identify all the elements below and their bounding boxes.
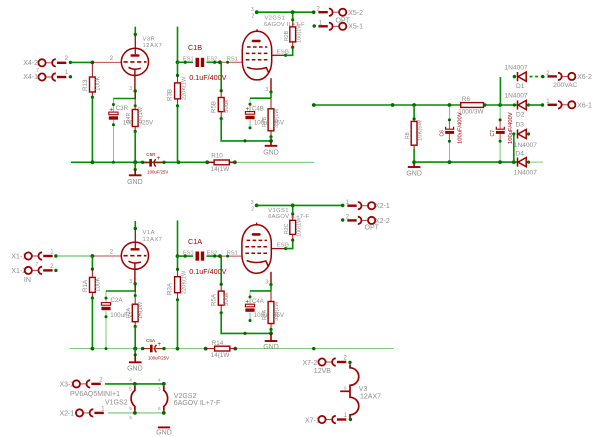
node wire end X5-2	[312, 10, 316, 14]
wire stub node at X4-2	[69, 61, 72, 64]
svg-text:C4B: C4B	[252, 105, 264, 112]
svg-text:6AGOV IL+7-F: 6AGOV IL+7-F	[268, 214, 309, 220]
wire cathode row V2GS1	[250, 97, 271, 99]
node R7B bottom	[269, 135, 272, 138]
connector X1 pin 2	[25, 267, 53, 274]
pin lead C7 top	[499, 120, 501, 129]
node R3B top	[176, 74, 179, 77]
svg-text:100(1W: 100(1W	[296, 217, 302, 237]
wire C4A top	[249, 291, 251, 304]
resistor R3B	[175, 83, 181, 99]
wire PSU bottom rail	[414, 161, 517, 163]
node cathode V1A	[134, 282, 137, 285]
node cap C5R right	[162, 161, 165, 164]
pin lead R13 top	[91, 62, 93, 77]
wire R5B to cathode rail	[221, 119, 271, 141]
junction D4 rail	[512, 160, 516, 164]
pin lead C5A right	[156, 348, 163, 350]
node cathode V3R	[134, 89, 137, 92]
svg-text:2: 2	[344, 356, 348, 362]
svg-text:100uF/25V: 100uF/25V	[148, 356, 169, 361]
junction C6 bottom	[448, 160, 452, 164]
pentode V1GS1 envelope	[242, 225, 271, 274]
connector X7 pin 2	[318, 358, 346, 365]
node C1B right pin	[213, 61, 216, 64]
wire cathode elbow V1A	[106, 284, 135, 291]
node GND stub bottom	[134, 353, 137, 356]
svg-text:200VAC: 200VAC	[553, 82, 577, 89]
connector X5 pin 1	[318, 23, 346, 30]
junction heater V2GS2 bottom	[162, 411, 166, 415]
svg-text:D3: D3	[516, 122, 525, 129]
junction cathode rail GND bottom	[269, 332, 273, 336]
svg-text:ESG: ESG	[277, 243, 290, 249]
svg-text:8: 8	[158, 406, 161, 411]
pin lead R1A bottom	[91, 292, 93, 298]
wire ground rail thin segment	[235, 161, 314, 163]
wire stub node at X4-1	[69, 75, 72, 78]
svg-text:C4A: C4A	[252, 298, 265, 305]
pin lead R14 right	[230, 348, 236, 350]
pin lead R3A top	[177, 269, 179, 276]
ground GND pentode bottom	[265, 333, 278, 341]
svg-text:1K(1W: 1K(1W	[138, 301, 144, 319]
wire C6 top lead	[448, 105, 450, 120]
node cap C5A right	[162, 347, 165, 350]
resistor R13	[90, 77, 96, 92]
svg-text:C2A: C2A	[111, 297, 124, 304]
pin lead R2C bottom	[292, 234, 294, 240]
svg-text:100uF/25V: 100uF/25V	[147, 170, 168, 175]
node cap C5R left	[141, 161, 144, 164]
pin lead R5B bottom	[220, 112, 222, 119]
svg-text:1: 1	[50, 250, 54, 256]
junction B+ rail stub	[391, 103, 395, 107]
svg-text:R5A: R5A	[211, 293, 218, 306]
wire to C2A top	[105, 291, 107, 303]
svg-text:1: 1	[101, 406, 105, 412]
triode V3R envelope	[121, 48, 148, 75]
svg-text:3: 3	[158, 387, 161, 392]
svg-text:X5-2: X5-2	[348, 10, 363, 17]
svg-text:C5A: C5A	[146, 338, 156, 343]
pin lead R7B top	[270, 98, 272, 109]
svg-text:R7B: R7B	[262, 116, 268, 127]
junction rail GND	[133, 160, 137, 164]
pentode V2GS1 grid2	[246, 52, 269, 54]
node R2A bottom	[134, 325, 137, 328]
node C4A bottom	[249, 319, 252, 322]
node R1A bottom	[91, 296, 94, 299]
connector X2 heater pin 1	[76, 409, 104, 416]
svg-text:100K: 100K	[95, 276, 102, 292]
wire heater bottom rail	[108, 412, 164, 414]
svg-text:GND: GND	[263, 344, 279, 351]
svg-text:5: 5	[129, 415, 132, 420]
svg-text:V3: V3	[359, 386, 368, 393]
pin lead cathode V1GS1	[270, 272, 272, 285]
svg-text:100K: 100K	[95, 75, 102, 91]
wire ground rail bottom right	[230, 348, 394, 350]
wire plate stub V1A	[134, 221, 136, 229]
svg-text:D4: D4	[516, 150, 525, 157]
pentode V2GS1 grid3	[246, 59, 269, 61]
svg-text:V1GS2: V1GS2	[105, 399, 128, 406]
capacitor C2A	[101, 303, 110, 311]
svg-text:OPT: OPT	[365, 225, 380, 232]
svg-text:9: 9	[129, 406, 132, 411]
junction R3B row	[176, 60, 180, 64]
diode D3	[518, 129, 527, 138]
svg-text:ES1: ES1	[183, 57, 194, 63]
svg-text:V2GS1: V2GS1	[265, 15, 286, 21]
connector X4 pin 1	[38, 73, 66, 80]
svg-text:GND: GND	[406, 170, 422, 177]
node cap C5A left	[141, 347, 144, 350]
svg-text:12AX7: 12AX7	[143, 237, 163, 243]
wire ground rail bottom left	[70, 348, 215, 350]
svg-text:330(1W: 330(1W	[274, 301, 280, 321]
pin lead plate V1A	[134, 229, 136, 249]
pin lead grid of V3R	[92, 61, 121, 63]
node D3 anode	[527, 132, 530, 135]
svg-text:X4-1: X4-1	[23, 74, 38, 81]
svg-text:12VB: 12VB	[314, 368, 331, 375]
node C6 top pin	[448, 118, 451, 121]
pin lead grid pentode V2GS1	[220, 61, 242, 63]
pin lead R7B bottom	[270, 131, 272, 137]
svg-text:GND: GND	[263, 149, 279, 156]
wire plate stub of V3R	[134, 27, 136, 35]
svg-text:3: 3	[129, 86, 132, 92]
node grid pin V1GS1	[226, 255, 229, 258]
wire C7 bottom lead	[499, 141, 501, 162]
connector X2 pin 1	[347, 202, 375, 209]
svg-text:R10: R10	[211, 153, 223, 160]
svg-text:X2-1: X2-1	[375, 203, 390, 210]
node R3A top	[176, 268, 179, 271]
node C1A left pin	[184, 255, 187, 258]
svg-text:500k: 500k	[223, 292, 230, 306]
pin lead C6 top	[448, 120, 450, 129]
wire bleeder top	[413, 105, 415, 119]
node B+ rail left end	[312, 103, 316, 107]
node bleeder top	[413, 117, 416, 120]
junction plate node V2GS1	[255, 10, 259, 14]
heater V3 upper arc	[350, 364, 359, 391]
node R2B top	[291, 18, 294, 21]
svg-text:GND: GND	[127, 179, 143, 186]
svg-text:1N4007: 1N4007	[514, 170, 537, 177]
pin lead R3B bottom	[177, 99, 179, 106]
svg-text:R2A: R2A	[126, 307, 132, 318]
node C4A top	[249, 295, 252, 298]
connector X4 pin 2	[38, 59, 66, 66]
pin lead grid V1A	[92, 255, 121, 257]
node R5A bottom	[220, 311, 223, 314]
node R1A top	[91, 268, 94, 271]
svg-text:+: +	[157, 155, 161, 162]
node screen V2GS1	[284, 54, 287, 57]
diode D4	[518, 158, 527, 167]
junction input node bottom	[91, 254, 95, 258]
wire D2 to X6-1	[529, 104, 543, 106]
junction grid node pentode	[218, 60, 222, 64]
node C7 top pin	[499, 118, 502, 121]
wire to GND	[134, 162, 136, 169]
svg-text:4: 4	[129, 378, 132, 383]
junction rail C3R	[112, 161, 115, 164]
svg-text:X6-2: X6-2	[577, 74, 592, 81]
junction PSU rail GND	[412, 160, 416, 164]
pin lead R7A bottom	[270, 324, 272, 330]
wire to C3R top	[112, 99, 114, 113]
svg-text:X2-1: X2-1	[60, 410, 75, 417]
svg-text:R3A: R3A	[166, 282, 173, 295]
junction rail R3A	[176, 347, 180, 351]
pin lead R5A bottom	[220, 305, 222, 313]
node R3A bottom	[176, 298, 179, 301]
wire to R5A top	[220, 256, 222, 284]
node R7A bottom	[269, 328, 272, 331]
node screen V1GS1	[284, 247, 287, 250]
triode V1A grid	[124, 255, 147, 257]
node on cathode wire	[243, 139, 246, 142]
polarized capacitor C5R	[149, 159, 156, 167]
pentode V1GS1 plate	[252, 233, 261, 236]
node X6-1 wire end	[541, 103, 544, 106]
node R5B bottom	[220, 117, 223, 120]
resistor R8 bleeder	[411, 121, 417, 145]
junction cathode rail GND	[269, 139, 273, 143]
node C4B top	[249, 103, 252, 106]
node R4R pin top	[134, 104, 137, 107]
connector X7 pin 1	[318, 416, 346, 423]
node R2B bottom	[291, 46, 294, 49]
node R6 right	[483, 103, 486, 106]
pin lead bleeder bottom	[413, 145, 415, 148]
junction C7 bottom	[498, 160, 502, 164]
svg-text:2: 2	[65, 56, 69, 62]
connector X2 pin 2	[347, 217, 375, 224]
triode V1A cathode	[129, 261, 141, 263]
svg-text:3: 3	[265, 279, 268, 285]
wire stub node X5-1	[313, 24, 316, 27]
wire R1A top	[91, 256, 93, 269]
node C4B bottom	[249, 126, 252, 129]
svg-text:1K(1W: 1K(1W	[138, 106, 144, 124]
node C2A top	[105, 297, 108, 300]
node GND stub	[134, 168, 137, 171]
wire R4R to rail	[134, 132, 136, 163]
junction C6 top	[448, 103, 452, 107]
resistor R5B	[218, 98, 224, 112]
svg-text:V2GS2: V2GS2	[174, 393, 197, 400]
wire to C1A left	[178, 255, 194, 257]
svg-text:14(1W: 14(1W	[211, 166, 230, 173]
wire B+ to R3A	[177, 220, 179, 256]
junction bleeder top	[412, 103, 416, 107]
node R3B bottom	[176, 104, 179, 107]
pin lead R10 right	[229, 161, 235, 163]
node rail bottom right	[312, 347, 315, 350]
wire to GND bottom	[134, 349, 136, 355]
wire cathode row V1GS1	[250, 290, 271, 292]
pentode V2GS1 cathode	[247, 67, 269, 73]
node C7 bottom pin	[499, 140, 502, 143]
capacitor C1B	[196, 58, 205, 67]
ground GND PSU	[408, 162, 421, 167]
svg-text:C1A: C1A	[188, 237, 202, 246]
pin lead R4R bottom	[134, 127, 136, 132]
svg-text:12AX7: 12AX7	[143, 43, 163, 49]
svg-text:220K(1W: 220K(1W	[181, 270, 187, 294]
pin lead C7 bottom	[499, 134, 501, 141]
svg-text:5: 5	[129, 387, 132, 392]
pin lead R5A top	[220, 284, 222, 291]
svg-text:R8: R8	[405, 132, 411, 139]
svg-text:C3R: C3R	[116, 105, 129, 112]
svg-text:1N4007: 1N4007	[505, 64, 528, 71]
node D4 anode	[527, 161, 530, 164]
pin lead bleeder top	[413, 119, 415, 122]
svg-text:4: 4	[158, 378, 161, 383]
ground bar floating heater	[158, 426, 170, 428]
svg-text:R7A: R7A	[262, 309, 268, 320]
node R2C top	[291, 212, 294, 215]
node cathode V2GS1	[269, 90, 272, 93]
pin lead R4R top	[134, 91, 136, 110]
pentode V2GS1 top nub	[256, 29, 258, 31]
resistor R1A	[90, 277, 96, 292]
node X1-1 stub	[54, 254, 57, 257]
svg-text:2: 2	[251, 207, 254, 213]
svg-text:2: 2	[110, 56, 114, 62]
node R4R bottom	[134, 130, 137, 133]
svg-text:C7: C7	[490, 130, 496, 137]
svg-text:+: +	[157, 341, 161, 348]
pin lead R2C top	[292, 214, 294, 221]
resistor R7B	[268, 109, 274, 131]
svg-text:3: 3	[251, 200, 254, 206]
node D1 cathode stub	[513, 75, 516, 78]
junction rail C2A bottom	[105, 347, 108, 350]
resistor R7A	[268, 302, 274, 324]
svg-text:1: 1	[344, 413, 348, 419]
pin lead C6 bottom	[448, 134, 450, 141]
junction rail R3B	[177, 160, 181, 164]
svg-text:10K(5W: 10K(5W	[418, 120, 424, 141]
pentode V2GS1 plate	[252, 40, 261, 43]
wire B+ to R3B	[177, 27, 179, 63]
wire R2C to B+ row bottom	[292, 205, 294, 213]
node R5B top	[220, 89, 223, 92]
junction grid node pentode bottom	[218, 254, 222, 258]
triode V3R cathode	[129, 67, 141, 69]
triode V3R plate	[131, 54, 140, 56]
junction rail GND bottom	[133, 347, 137, 351]
svg-text:X5-1: X5-1	[348, 24, 363, 31]
ground GND pentode top	[265, 141, 278, 146]
pin lead R3A bottom	[177, 293, 179, 300]
wire R7A to junction	[270, 330, 272, 334]
svg-text:GND: GND	[156, 430, 172, 437]
resistor R6	[461, 103, 484, 108]
pentode V1GS1 top nub	[256, 223, 258, 225]
wire cathode V1GS1	[270, 285, 272, 291]
junction rail R13	[91, 160, 95, 164]
wire input bottom channel	[56, 255, 93, 257]
svg-text:R5B: R5B	[211, 101, 218, 113]
diode D1	[518, 72, 527, 81]
pin lead R3B top	[177, 75, 179, 83]
junction rail R14 left	[204, 347, 208, 351]
wire D3 to D4 column	[513, 134, 515, 162]
svg-text:500k: 500k	[223, 99, 230, 113]
pin lead cathode V1A	[134, 263, 136, 284]
wire to R5B top	[220, 62, 222, 90]
svg-text:1: 1	[65, 70, 69, 76]
wire R5A to cathode rail bottom	[221, 313, 271, 334]
heater V3 lower arc	[350, 391, 359, 419]
capacitor C7	[496, 127, 505, 133]
svg-text:7: 7	[36, 262, 39, 268]
wire R3A to rail	[177, 300, 179, 349]
svg-text:12AX7: 12AX7	[360, 394, 381, 401]
svg-text:100uF/400V: 100uF/400V	[457, 112, 463, 144]
svg-text:R6: R6	[462, 96, 471, 103]
junction C7 top	[498, 103, 502, 107]
node R2A pin top	[134, 294, 137, 297]
node plate stub V3R	[134, 33, 137, 36]
svg-text:R4R: R4R	[126, 112, 132, 123]
pentode V1GS1 grid3	[245, 252, 268, 254]
pin lead cathode of V3R	[134, 69, 136, 91]
pentode V2GS1 envelope	[242, 31, 271, 80]
svg-text:3: 3	[251, 7, 254, 13]
pin lead R1A top	[91, 269, 93, 277]
junction rail R10 right	[233, 160, 237, 164]
junction rail R14 right	[233, 347, 237, 351]
resistor R10	[214, 160, 229, 165]
connector X5 pin 2	[318, 9, 346, 16]
svg-text:6AGOV IL+7-F: 6AGOV IL+7-F	[174, 400, 221, 407]
svg-text:7: 7	[36, 68, 39, 74]
junction rail R1A bottom	[91, 347, 95, 351]
svg-text:14(1W: 14(1W	[211, 352, 230, 359]
junction input node	[91, 61, 95, 65]
wire screen to R2C	[286, 240, 293, 249]
wire C7 column top	[499, 77, 501, 105]
resistor R3A	[175, 277, 181, 293]
node wire end X2-1	[341, 204, 345, 208]
wire cathode V2GS1	[270, 92, 272, 98]
svg-text:9: 9	[344, 386, 347, 391]
wire C6 bottom lead	[448, 141, 450, 162]
wire B+ row to X5	[257, 11, 314, 13]
capacitor C6	[445, 127, 454, 133]
svg-text:R1A: R1A	[82, 279, 89, 292]
node cathode V1GS1	[269, 283, 272, 286]
pin lead R2A top	[134, 284, 136, 304]
wire R6 to D2	[484, 104, 518, 106]
svg-text:2: 2	[50, 264, 54, 270]
connector X6 pin 1	[548, 101, 576, 108]
resistor R14	[215, 346, 230, 351]
pin lead R14 left	[206, 348, 215, 350]
svg-text:R2C: R2C	[284, 223, 290, 234]
wire bleeder bottom	[413, 149, 415, 163]
